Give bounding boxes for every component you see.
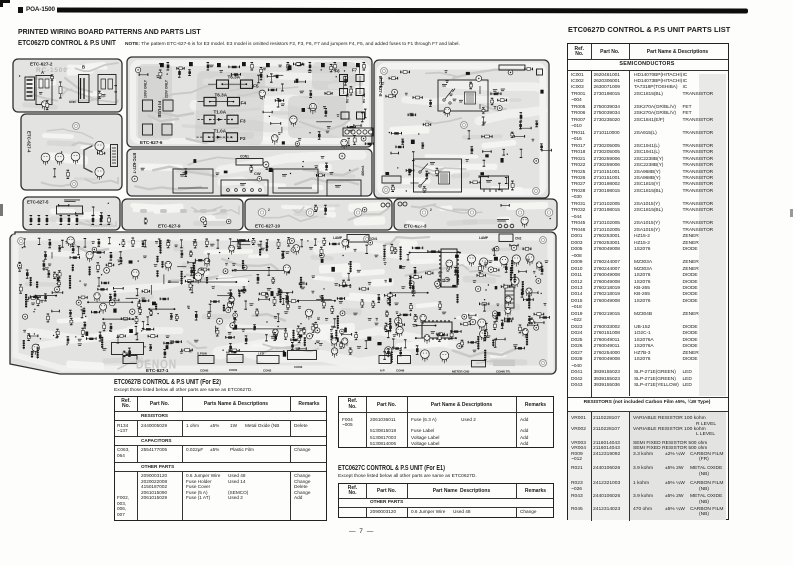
wire	[231, 241, 250, 243]
F004 additions table	[338, 396, 554, 448]
resistor	[482, 135, 492, 138]
label mark	[92, 241, 95, 243]
resistor	[391, 152, 399, 155]
resistor	[347, 126, 355, 129]
resistor	[106, 264, 113, 267]
page corner artifact	[0, 0, 10, 3]
label mark	[183, 172, 187, 174]
solder pad	[138, 260, 139, 261]
resistor	[299, 347, 306, 350]
solder pad	[100, 257, 101, 258]
label mark	[501, 89, 505, 92]
svg-text:F7: F7	[352, 68, 358, 73]
connector box	[481, 176, 509, 192]
resistor	[365, 142, 373, 145]
label mark	[167, 241, 171, 244]
E1 changes table	[338, 483, 554, 518]
resistor	[226, 336, 235, 339]
resistor	[195, 312, 198, 320]
component chain	[155, 304, 157, 311]
transistor	[165, 261, 171, 271]
top component row	[167, 63, 170, 71]
pad	[466, 72, 470, 75]
transistor	[309, 103, 316, 114]
resistor	[412, 289, 415, 296]
resistor	[267, 75, 277, 78]
capacitor	[511, 245, 517, 251]
svg-text:ETC-627-1: ETC-627-1	[146, 368, 169, 373]
component chain	[389, 318, 391, 327]
connector CON0	[198, 356, 214, 373]
label mark	[383, 245, 386, 248]
svg-text:A: A	[41, 70, 44, 75]
resistor	[340, 342, 343, 348]
component chain	[36, 282, 38, 289]
resistor	[426, 272, 433, 275]
resistor	[44, 294, 47, 301]
resistor	[451, 330, 461, 333]
capacitor	[493, 313, 498, 318]
label mark	[143, 256, 147, 259]
solder pad	[167, 73, 168, 74]
transistor TR	[41, 153, 50, 165]
solder pad	[118, 264, 119, 265]
svg-text:FI FUSE: FI FUSE	[157, 101, 162, 118]
solder pad	[541, 293, 542, 294]
transistor TR	[55, 153, 64, 165]
component chain	[238, 290, 240, 297]
E1 section title	[338, 465, 445, 472]
resistor	[494, 339, 497, 347]
resistor	[399, 350, 402, 356]
resistor	[160, 298, 168, 301]
label mark	[470, 83, 473, 86]
resistor	[410, 304, 413, 311]
mount hole	[540, 237, 547, 244]
component chain	[510, 267, 512, 281]
label mark	[339, 301, 343, 304]
resistor	[318, 132, 321, 140]
resistor	[350, 87, 353, 95]
transistor	[67, 237, 74, 248]
resistor	[514, 135, 525, 138]
resistor R	[59, 82, 62, 98]
capacitor	[340, 329, 345, 334]
resistor	[175, 315, 178, 321]
resistor	[259, 292, 267, 295]
resistor	[253, 325, 256, 330]
solder pad	[529, 323, 530, 324]
solder pad	[79, 280, 80, 281]
resistor	[121, 317, 129, 320]
label mark	[175, 245, 178, 247]
resistor	[29, 297, 38, 300]
fuse clip box	[163, 100, 173, 111]
connector CON6	[396, 356, 411, 373]
resistor	[97, 263, 100, 272]
label mark	[263, 68, 266, 71]
label mark	[225, 263, 228, 266]
solder pad	[109, 330, 110, 331]
resistor	[482, 108, 485, 113]
label mark	[180, 351, 183, 353]
label mark	[216, 173, 220, 176]
transistor	[94, 293, 100, 303]
resistor	[26, 270, 29, 278]
IC U1 DIP package	[439, 249, 459, 287]
board margin	[133, 63, 366, 141]
wire bus	[148, 308, 175, 310]
label mark	[166, 336, 170, 339]
pad	[287, 269, 290, 273]
solder pad	[397, 167, 398, 168]
transistor	[342, 338, 348, 348]
solder pad	[523, 329, 524, 330]
resistor	[530, 318, 533, 324]
solder pad	[219, 252, 220, 253]
svg-text:CON6: CON6	[396, 369, 405, 373]
pad	[233, 350, 236, 354]
resistor	[407, 255, 410, 260]
wire	[359, 65, 361, 73]
solder pad	[53, 335, 54, 336]
resistor	[391, 132, 401, 135]
capacitor	[339, 153, 345, 159]
label mark	[401, 266, 405, 269]
ghost pads	[140, 209, 227, 213]
resistor	[209, 304, 212, 312]
solder pad	[189, 350, 190, 351]
resistor	[265, 293, 268, 298]
resistor	[524, 298, 534, 301]
capacitor	[508, 70, 513, 75]
mount hole	[461, 122, 468, 129]
resistor	[27, 334, 30, 341]
solder pad	[61, 151, 62, 152]
capacitor	[76, 300, 81, 305]
pad	[367, 337, 371, 341]
solder pad	[302, 329, 303, 330]
label mark	[168, 281, 171, 284]
resistor	[277, 99, 280, 107]
component chain	[181, 271, 183, 285]
label mark	[234, 269, 237, 272]
PCB board ETC-627-6 outline	[127, 57, 372, 147]
label mark	[317, 318, 320, 321]
mount hole	[381, 68, 388, 75]
transistor	[32, 344, 39, 355]
solder pad	[101, 274, 102, 275]
capacitor	[340, 311, 345, 316]
resistor	[396, 146, 404, 149]
label mark	[325, 318, 328, 321]
wire	[51, 252, 53, 258]
component chain	[206, 277, 208, 284]
transistor	[522, 329, 528, 338]
svg-text:METER CN5: METER CN5	[452, 370, 470, 374]
resistor	[325, 92, 332, 95]
solder pad	[228, 293, 229, 294]
resistor	[505, 264, 508, 272]
resistor	[461, 340, 464, 347]
label mark	[445, 70, 448, 73]
page number	[349, 528, 374, 535]
label mark	[396, 312, 399, 315]
component chain	[279, 289, 281, 303]
resistor	[263, 111, 272, 114]
connector CON1	[227, 355, 243, 373]
resistor row	[30, 216, 33, 225]
pad	[495, 286, 498, 289]
solder pad	[40, 338, 41, 339]
pad	[485, 154, 488, 157]
PCB board ETC-627-7 outline	[127, 149, 372, 196]
component chain	[477, 336, 479, 350]
label mark	[311, 311, 314, 314]
svg-text:CON1: CON1	[229, 368, 238, 372]
capacitor	[217, 318, 223, 324]
capacitor	[409, 281, 414, 286]
connector CON2	[257, 356, 279, 373]
solder pad	[535, 276, 536, 277]
label marks	[497, 219, 509, 222]
svg-text:T1.0A: T1.0A	[362, 94, 366, 104]
label mark	[26, 299, 29, 302]
resistor	[501, 320, 504, 328]
resistor	[285, 296, 288, 302]
resistor	[385, 323, 388, 331]
mount hole	[258, 209, 266, 217]
resistor	[44, 252, 47, 259]
label mark	[267, 288, 272, 291]
resistor	[195, 259, 205, 262]
resistor	[268, 89, 276, 92]
resistor	[190, 268, 193, 276]
relay RY1	[438, 80, 488, 111]
resistor	[521, 290, 524, 297]
transistor	[305, 309, 312, 320]
label mark	[337, 114, 340, 117]
resistor	[520, 149, 523, 157]
component chain	[350, 261, 352, 273]
resistor	[297, 326, 300, 334]
solder pad	[277, 326, 278, 327]
page edge mark	[0, 204, 3, 216]
transistor	[194, 273, 202, 284]
resistor	[136, 289, 139, 296]
resistor	[143, 328, 154, 331]
svg-text:400mA: 400mA	[361, 165, 365, 176]
solder pad	[507, 154, 508, 155]
transistor	[100, 303, 107, 313]
resistor	[324, 205, 327, 214]
resistor	[401, 139, 404, 144]
resistor	[30, 335, 38, 338]
resistor	[103, 323, 106, 331]
resistor	[67, 337, 70, 343]
component chain	[25, 294, 27, 308]
label mark	[383, 258, 386, 260]
resistor	[111, 299, 119, 302]
resistor	[438, 334, 441, 342]
resistor	[386, 311, 389, 316]
wire	[308, 107, 316, 109]
label mark	[532, 139, 535, 141]
wire bus	[409, 252, 461, 254]
resistor	[380, 78, 383, 86]
wire	[316, 298, 332, 300]
PCB board ETC-627-1 outline	[10, 232, 556, 374]
svg-text:ETC-627-5: ETC-627-5	[27, 200, 49, 205]
capacitor	[23, 314, 28, 319]
resistor	[393, 347, 401, 350]
resistor	[138, 302, 141, 309]
resistor	[519, 122, 522, 129]
label mark	[311, 291, 314, 294]
wire bus	[416, 325, 437, 327]
resistor	[392, 339, 395, 347]
connector CON3	[288, 351, 317, 370]
solder pad	[66, 344, 67, 345]
capacitor	[233, 313, 238, 318]
component chain	[156, 256, 158, 263]
pad	[385, 172, 389, 175]
component chain	[292, 330, 294, 342]
resistor	[324, 109, 327, 117]
solder pad	[315, 343, 316, 344]
wire	[273, 74, 283, 76]
pad	[299, 334, 302, 337]
component chain	[37, 347, 39, 359]
resistor	[423, 187, 426, 193]
component row top edge	[23, 239, 26, 247]
label mark	[78, 343, 82, 346]
transistor	[386, 325, 392, 334]
resistor	[511, 181, 514, 190]
resistor	[291, 339, 299, 342]
resistor	[365, 341, 368, 349]
mount hole	[73, 123, 80, 130]
connector B block	[79, 75, 90, 103]
component chain	[337, 316, 339, 330]
resistor	[491, 98, 494, 104]
label mark	[242, 329, 245, 331]
resistor	[120, 258, 123, 263]
transistor	[511, 277, 519, 289]
relay K2	[221, 180, 268, 195]
capacitor	[291, 248, 295, 252]
wire	[316, 121, 332, 123]
resistor	[229, 349, 239, 352]
label mark	[409, 113, 413, 116]
resistor	[391, 185, 394, 191]
connector CON1	[236, 155, 263, 166]
solder pad	[38, 344, 39, 345]
svg-text:100V ONLY: 100V ONLY	[144, 79, 148, 98]
wire bus	[389, 292, 428, 294]
resistor	[480, 302, 489, 305]
header model square	[18, 7, 23, 13]
capacitor	[109, 300, 115, 306]
resistor	[483, 150, 492, 153]
wire	[238, 244, 250, 246]
resistor	[535, 321, 544, 324]
transistor	[229, 245, 235, 254]
wire bus	[233, 328, 287, 330]
resistor	[377, 295, 380, 303]
resistor	[330, 243, 340, 246]
pad	[224, 171, 228, 174]
resistor	[191, 286, 194, 293]
component chain	[161, 261, 163, 268]
solder pad	[286, 267, 287, 268]
resistor	[521, 127, 532, 130]
resistor	[321, 296, 324, 302]
buzzer outline	[57, 206, 83, 214]
resistor	[401, 71, 410, 74]
resistor	[47, 314, 50, 322]
resistor	[391, 244, 394, 253]
resistor	[505, 178, 508, 184]
label mark	[219, 70, 223, 73]
resistor	[491, 92, 501, 95]
resistor	[413, 96, 422, 99]
pad	[282, 141, 285, 144]
resistor	[238, 239, 249, 242]
solder pad	[469, 321, 470, 322]
resistor	[37, 298, 40, 306]
capacitor	[263, 162, 269, 168]
pad	[113, 309, 116, 313]
component chain	[492, 340, 494, 347]
label mark	[327, 126, 331, 129]
resistor	[291, 343, 294, 350]
transistor row	[467, 255, 475, 267]
transistor	[521, 217, 528, 228]
resistor	[170, 314, 173, 320]
resistor	[540, 144, 543, 150]
resistor	[234, 311, 237, 320]
label mark	[468, 317, 472, 319]
component chain	[156, 270, 158, 277]
resistor	[344, 76, 347, 85]
solder pad	[482, 271, 483, 272]
resistor	[114, 287, 124, 290]
resistor	[100, 213, 103, 221]
pad	[480, 172, 484, 175]
transistor	[229, 296, 235, 305]
resistor	[275, 99, 283, 102]
solder pad	[22, 247, 23, 248]
wire	[150, 285, 152, 295]
resistor	[208, 312, 211, 318]
label mark	[187, 306, 190, 309]
resistor	[58, 281, 61, 287]
pad	[166, 345, 169, 349]
resistor	[501, 285, 510, 288]
resistor	[55, 332, 58, 338]
resistor	[81, 328, 84, 336]
resistor	[245, 336, 248, 344]
solder pad	[290, 173, 291, 174]
header rule bar	[57, 7, 748, 13]
resistor	[528, 316, 531, 322]
solder pad	[144, 346, 145, 347]
resistor	[18, 262, 21, 271]
relay RY2	[414, 159, 462, 192]
connector CN2	[499, 234, 522, 242]
resistor	[178, 69, 181, 78]
